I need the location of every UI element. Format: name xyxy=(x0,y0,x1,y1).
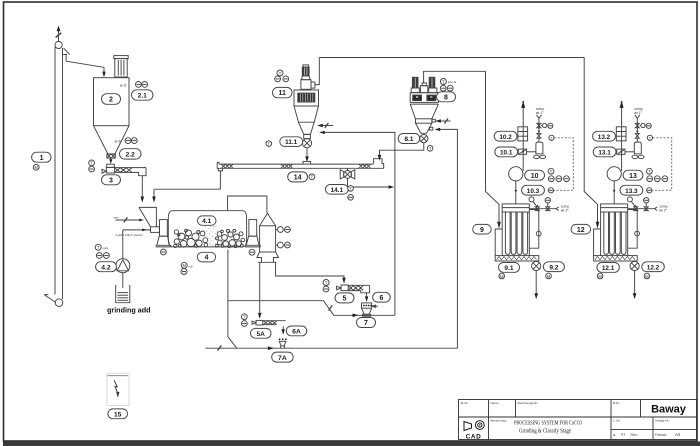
svg-text:M: M xyxy=(34,165,38,170)
svg-text:4: 4 xyxy=(204,255,208,262)
svg-text:5A: 5A xyxy=(256,331,265,338)
instrument circles left of conveyor 3 xyxy=(89,160,95,172)
instrument circles below mill xyxy=(181,262,193,274)
filter 8 outlet duct xyxy=(424,71,486,83)
svg-text:5: 5 xyxy=(343,296,347,303)
mill inlet box xyxy=(151,227,160,233)
svg-text:M: M xyxy=(500,274,504,279)
svg-text:14.1: 14.1 xyxy=(331,187,344,194)
mill drain line xyxy=(227,250,229,301)
svg-text:10.2: 10.2 xyxy=(499,134,512,141)
svg-text:a.: a. xyxy=(613,433,616,437)
instrument circle left of 11.1 xyxy=(266,141,272,147)
svg-text:aero: aero xyxy=(114,216,120,220)
label 3 xyxy=(102,175,121,185)
svg-text:L.-Nr.:: L.-Nr.: xyxy=(613,419,621,423)
elevator 1 vent arrow xyxy=(56,26,62,42)
svg-text:auto-St: auto-St xyxy=(448,80,457,84)
svg-text:T: T xyxy=(279,71,282,76)
svg-text:grinding add: grinding add xyxy=(107,306,151,315)
label 12 xyxy=(571,224,591,234)
filter 12 clean air header xyxy=(601,204,628,212)
label 10.3 xyxy=(522,185,545,195)
label 11.1 xyxy=(280,137,303,147)
magnetic separator 7 xyxy=(362,303,379,316)
water dosing line into mill inlet xyxy=(116,229,151,238)
label 10 xyxy=(525,170,545,180)
svg-text:Format:: Format: xyxy=(655,433,667,437)
label 7 xyxy=(357,318,376,328)
wire 14.1 to riser x395 xyxy=(348,178,395,188)
svg-text:7A: 7A xyxy=(278,355,287,362)
svg-text:Benennung:: Benennung: xyxy=(491,419,507,423)
label 7A xyxy=(272,352,294,362)
wire 8.1 to conveyor 14 xyxy=(378,143,424,161)
instrument circle under outlet pedestal xyxy=(249,249,255,255)
rotary valve 2.2 xyxy=(107,154,115,158)
svg-text:Name:: Name: xyxy=(491,401,500,405)
lightning arrester 15 xyxy=(107,373,129,405)
elevator boot xyxy=(257,252,279,262)
elevator level sensors xyxy=(276,227,291,248)
svg-text:8: 8 xyxy=(444,94,448,101)
svg-text:Grinding & Classify Stage: Grinding & Classify Stage xyxy=(519,427,571,434)
svg-text:9.1: 9.1 xyxy=(504,265,513,272)
fan 10 exhaust stack xyxy=(521,101,525,171)
silencer 13.2 xyxy=(616,127,626,141)
air bleed arrow into classifier cone xyxy=(317,123,333,128)
filter 9 bags xyxy=(505,212,527,254)
label 2.2 xyxy=(120,149,142,159)
svg-text:⌀-3: ⌀-3 xyxy=(115,138,122,143)
wire 12.2 discharge xyxy=(633,271,637,300)
svg-text:4.2: 4.2 xyxy=(101,264,111,271)
label 4.2 xyxy=(96,262,117,272)
air return riser x457 xyxy=(435,128,458,349)
filter 9 screw trough xyxy=(495,256,539,261)
label 11 xyxy=(273,87,293,97)
CAD logo xyxy=(464,421,484,431)
svg-text:Baway: Baway xyxy=(651,404,687,416)
svg-text:T: T xyxy=(90,161,93,166)
fan 13 xyxy=(607,167,621,204)
svg-text:B-Nr.:: B-Nr.: xyxy=(613,401,621,405)
filter 12 screw trough xyxy=(594,256,638,261)
screw conveyor 5 xyxy=(337,285,370,293)
label 5 xyxy=(335,293,354,303)
svg-text:2.1: 2.1 xyxy=(138,93,147,100)
twin filter 8 cartridges xyxy=(411,77,437,92)
instrument circle below 8.1 xyxy=(427,146,433,152)
svg-text:13.2: 13.2 xyxy=(598,134,611,141)
classifier neck xyxy=(304,134,311,138)
filter 9 inlet chamber xyxy=(495,212,502,256)
svg-text:air 2″: air 2″ xyxy=(561,208,570,212)
damper 10.1 xyxy=(518,149,526,154)
wire 5 to separator 7 xyxy=(365,293,368,302)
wire 2.2 to conveyor 3 xyxy=(109,158,112,164)
svg-text:9: 9 xyxy=(480,227,484,234)
instrument circle below 12.1 xyxy=(597,273,603,279)
comp air supply assembly 13 xyxy=(625,107,645,159)
label 6A xyxy=(286,326,307,336)
instrument circles 8 xyxy=(440,79,456,92)
svg-text:11.1: 11.1 xyxy=(285,139,298,146)
mill discharge elevator housing xyxy=(260,213,276,252)
svg-text:10.3: 10.3 xyxy=(527,188,540,195)
svg-text:b-H2O-1.8L/T product: b-H2O-1.8L/T product xyxy=(116,233,143,237)
filter 12 inlet duct xyxy=(584,58,599,229)
instrument circles right of comp air 13 xyxy=(646,123,652,140)
svg-text:M: M xyxy=(182,263,186,268)
label 13.2 xyxy=(593,131,616,141)
instrument circle right of 14 xyxy=(309,174,315,180)
filter 8 cone and drum xyxy=(410,104,438,133)
svg-text:PROCESSING SYSTEM FOR CaCO3: PROCESSING SYSTEM FOR CaCO3 xyxy=(514,421,582,427)
svg-text:T: T xyxy=(550,169,553,174)
rotary valve 12.2 xyxy=(630,261,639,270)
bag filter unit 9 group xyxy=(473,101,574,300)
label 9.2 xyxy=(543,262,564,272)
wire elevator boot to conveyor 5 xyxy=(276,262,346,283)
rotary valve 11.1 xyxy=(302,139,311,148)
instrument circles above 11 xyxy=(275,70,289,82)
bag filter 2 vent xyxy=(114,56,128,77)
dashed control loop xyxy=(554,138,574,191)
classifier 11 outlet stub xyxy=(311,58,319,89)
filter 12 bags xyxy=(604,212,626,254)
svg-text:CAD: CAD xyxy=(466,433,482,440)
svg-text:M: M xyxy=(645,274,649,279)
mill feed hopper xyxy=(139,207,156,226)
svg-text:3: 3 xyxy=(109,177,113,184)
label 2 xyxy=(102,94,121,105)
svg-text:10: 10 xyxy=(531,173,539,180)
air bleed line into hopper xyxy=(114,216,144,223)
pulse jet cleaning header xyxy=(529,197,570,212)
pulse jet cleaning header 13 xyxy=(627,197,668,212)
filter 12 inlet chamber xyxy=(594,212,601,256)
svg-text:6: 6 xyxy=(379,295,383,302)
air bleed arrow into filter 8 drum xyxy=(435,119,450,124)
label 14 xyxy=(288,172,308,182)
duct elevator1 to filter2 xyxy=(63,48,105,77)
wire conveyor 3 discharge to mill hopper xyxy=(141,176,145,203)
instrument circle right of 13.3 xyxy=(647,188,652,193)
rotary valve 9.2 xyxy=(532,261,541,270)
svg-text:Anlage-Nr.:: Anlage-Nr.: xyxy=(655,419,670,423)
svg-text:air 1″: air 1″ xyxy=(634,111,643,115)
svg-text:M: M xyxy=(598,274,602,279)
instrument circles left of 5 xyxy=(323,280,329,292)
svg-text:8.1: 8.1 xyxy=(404,136,413,143)
title block xyxy=(459,400,697,440)
svg-text:Rev.:: Rev.: xyxy=(631,433,639,437)
svg-text:1: 1 xyxy=(40,155,44,162)
mill outlet trunnion xyxy=(245,220,260,247)
title block tiny labels xyxy=(461,401,681,437)
label 2.1 xyxy=(132,90,154,100)
label 15 xyxy=(108,409,128,419)
filter 9 clean air header xyxy=(502,204,529,212)
svg-text:11: 11 xyxy=(278,90,286,97)
wire elevator boot to 5A xyxy=(258,262,262,319)
label 10.2 xyxy=(494,131,517,141)
svg-text:12.1: 12.1 xyxy=(602,265,615,272)
svg-text:mill: mill xyxy=(189,264,193,268)
filter 12 right panel xyxy=(628,210,638,256)
svg-text:air 2″: air 2″ xyxy=(659,208,668,212)
instrument circles 4.2 xyxy=(95,244,109,258)
label 10.1 xyxy=(495,147,518,157)
air riser x395 xyxy=(319,131,395,316)
label 6 xyxy=(373,292,391,302)
svg-text:2: 2 xyxy=(109,97,113,104)
svg-text:13.1: 13.1 xyxy=(598,150,611,157)
label 1 xyxy=(32,152,51,162)
instrument circles right of fan 13 xyxy=(647,168,668,181)
wire conveyor 14 return to mill hopper xyxy=(152,171,220,203)
bag filter unit 12 group (mirror of 9) xyxy=(571,101,672,300)
instrument circle below 9.1 xyxy=(499,273,505,279)
drawing title text xyxy=(514,421,582,435)
classifier 11 motor xyxy=(301,65,311,89)
wire 11.1 to conveyor 14 xyxy=(305,148,309,162)
label 4.1 xyxy=(198,216,217,225)
grinding add pump 4.2 xyxy=(116,230,130,288)
filter 9 inlet duct xyxy=(486,71,501,229)
instrument circles near 2.2 xyxy=(125,138,137,144)
svg-text:M: M xyxy=(547,274,551,279)
label 12.2 xyxy=(642,262,665,272)
svg-text:14: 14 xyxy=(294,175,302,182)
label 13 xyxy=(623,170,643,180)
label 4 xyxy=(197,252,215,262)
instrument circles below 14.1 xyxy=(348,186,354,201)
label 13.3 xyxy=(620,185,643,195)
damper 13.1 xyxy=(617,149,625,154)
label 8.1 xyxy=(398,134,420,144)
classifier 11 body xyxy=(294,90,319,106)
svg-text:St-Nr.:: St-Nr.: xyxy=(461,401,470,405)
instrument circles 2.1 xyxy=(136,82,148,88)
filter 12 gauge circle xyxy=(635,231,640,236)
valve 14.1 xyxy=(340,168,355,179)
wire drain branch to line under 7 xyxy=(228,301,334,316)
svg-text:T: T xyxy=(243,315,246,320)
label 13.1 xyxy=(593,147,616,157)
screw conveyor 5A xyxy=(252,320,286,325)
svg-text:9.2: 9.2 xyxy=(549,264,558,271)
label 9.1 xyxy=(499,263,520,273)
instrument circle below label 1 xyxy=(33,164,39,170)
svg-text:T: T xyxy=(325,280,328,285)
grinding balls left cluster xyxy=(174,229,208,247)
svg-text:air 1″: air 1″ xyxy=(536,111,545,115)
svg-text:7: 7 xyxy=(364,320,368,327)
svg-text:Zeichnungs-Nr.:: Zeichnungs-Nr.: xyxy=(518,401,539,405)
ball mill 4 shell xyxy=(168,211,246,247)
bag filter 2 body xyxy=(94,78,130,154)
rotary valve 8.1 xyxy=(420,135,428,143)
instrument circles right of fan 10 xyxy=(548,168,569,181)
filter 9 right panel xyxy=(529,210,539,256)
label 12.1 xyxy=(597,263,620,273)
svg-text:12: 12 xyxy=(577,227,585,234)
svg-text:12.2: 12.2 xyxy=(647,264,660,271)
filter 8 body xyxy=(410,93,438,104)
instrument circle under inlet pedestal xyxy=(161,249,167,255)
grinding add container xyxy=(116,285,130,303)
wire 5A discharge xyxy=(279,326,287,340)
main air duct to filters xyxy=(319,57,584,59)
label 8 xyxy=(437,92,456,102)
instrument circles right of comp air xyxy=(548,123,554,140)
svg-text:15: 15 xyxy=(114,411,122,418)
svg-text:T: T xyxy=(268,142,271,147)
instrument circles left of 5A xyxy=(241,314,247,327)
screw conveyor 14 xyxy=(217,159,384,171)
svg-text:T: T xyxy=(648,169,651,174)
svg-text:⌀-3: ⌀-3 xyxy=(120,83,127,88)
svg-text:01: 01 xyxy=(621,433,625,437)
silencer 10.2 xyxy=(518,127,528,141)
line under component 7 xyxy=(334,314,395,318)
svg-text:A4: A4 xyxy=(675,432,681,437)
svg-text:13.3: 13.3 xyxy=(625,188,638,195)
svg-text:4.1: 4.1 xyxy=(202,218,211,225)
dashed control loop 13 xyxy=(652,138,672,191)
svg-text:13: 13 xyxy=(629,173,637,180)
svg-text:T: T xyxy=(442,79,445,84)
mill charge stipple xyxy=(203,226,218,247)
svg-text:10.1: 10.1 xyxy=(500,150,513,157)
svg-text:2.2: 2.2 xyxy=(126,152,135,159)
svg-text:Lube: Lube xyxy=(103,246,109,250)
bucket elevator 1 xyxy=(44,41,63,306)
comp air supply assembly xyxy=(527,107,547,159)
filter 9 gauge circle xyxy=(536,231,541,236)
svg-text:T: T xyxy=(311,175,314,180)
wire 9.2 discharge xyxy=(534,271,538,300)
mill vent duct xyxy=(228,196,267,213)
mill inlet trunnion xyxy=(156,220,171,247)
label 14.1 xyxy=(325,185,348,195)
fan 13 exhaust stack xyxy=(620,101,624,171)
screw conveyor 3 xyxy=(102,164,146,176)
svg-text:6A: 6A xyxy=(292,329,301,336)
fan 10 xyxy=(509,167,523,204)
instrument circle below 9.2 xyxy=(546,273,552,279)
grinding balls right cluster xyxy=(215,229,244,247)
label 9 xyxy=(473,224,492,234)
label 5A xyxy=(251,328,272,338)
funnel on 7A line xyxy=(279,341,287,348)
wire drain branch to 7A line xyxy=(228,301,237,349)
svg-text:T: T xyxy=(97,245,100,250)
instrument circle right of 10.3 xyxy=(548,188,553,193)
7A collection line xyxy=(205,345,457,350)
classifier 11 cone xyxy=(294,106,319,134)
svg-text:T: T xyxy=(429,146,432,151)
instrument circle below 12.2 xyxy=(644,273,650,279)
svg-text:T: T xyxy=(349,186,352,191)
